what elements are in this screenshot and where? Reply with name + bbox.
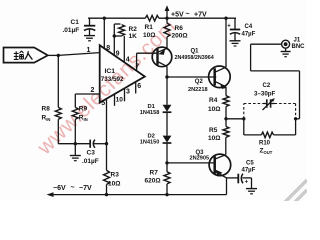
node: Q1 collector / output: [165, 75, 168, 78]
svg-text:2N4958/2N3964: 2N4958/2N3964: [175, 55, 214, 61]
diode D1 1N4158: [140, 77, 172, 116]
svg-text:C4: C4: [245, 24, 253, 30]
pin 2: [91, 87, 95, 94]
wire: R7 to rail: [166, 184, 168, 195]
svg-text:J1: J1: [294, 38, 301, 44]
resistor R3: [104, 170, 121, 187]
wire: Q2 collector to rail: [225, 18, 227, 67]
resistor R10: [244, 119, 296, 155]
svg-text:~: ~: [186, 11, 190, 18]
svg-text:C3: C3: [87, 150, 96, 157]
svg-text:10Ω: 10Ω: [143, 32, 155, 39]
pin 1: [87, 47, 91, 54]
svg-text:R6: R6: [175, 25, 184, 32]
svg-text:6: 6: [137, 83, 141, 90]
svg-text:R8: R8: [42, 106, 51, 113]
wire: output node to C2: [226, 118, 244, 120]
node: C2 right: [294, 117, 297, 120]
node: rail/R6 junction: [165, 17, 168, 20]
svg-text:−7V: −7V: [79, 185, 92, 192]
svg-text:C5: C5: [246, 161, 254, 167]
input connector (输入): [4, 48, 48, 63]
pin 5: [101, 100, 105, 107]
svg-text:IC1: IC1: [105, 68, 116, 75]
svg-text:+: +: [227, 24, 231, 30]
transistor Q3 2N2905 (PNP): [190, 150, 231, 178]
resistor R7: [145, 170, 171, 185]
wire: R9 bottom: [74, 119, 76, 143]
svg-text:.01µF: .01µF: [63, 27, 80, 34]
svg-text:C2: C2: [263, 83, 271, 89]
op-amp IC1 733/592: [100, 45, 145, 102]
svg-text:1: 1: [87, 47, 91, 54]
svg-text:620Ω: 620Ω: [145, 178, 161, 185]
supply arrow -V: [47, 192, 54, 197]
svg-text:7: 7: [135, 64, 139, 71]
ground (C4): [230, 41, 241, 46]
wire: output to J1: [251, 44, 300, 119]
supply arrow +V: [165, 5, 170, 18]
pin 3: [126, 89, 130, 96]
svg-text:~: ~: [71, 185, 75, 192]
svg-text:47µF: 47µF: [242, 168, 256, 174]
wire: pin 2 lead: [75, 94, 99, 107]
pin 7: [135, 64, 139, 71]
supply label -6V ~ -7V: [53, 185, 92, 193]
svg-text:200Ω: 200Ω: [172, 33, 188, 40]
resistor R9: [72, 106, 87, 123]
svg-text:10Ω: 10Ω: [208, 135, 220, 142]
node: rail/Q2 collector junction: [224, 17, 227, 20]
svg-text:+5V: +5V: [171, 12, 184, 19]
pin 10: [116, 97, 124, 104]
svg-text:Q2: Q2: [195, 79, 204, 85]
svg-text:1N4150: 1N4150: [140, 139, 160, 145]
wire: R8/R9 common bar: [58, 143, 106, 145]
wire: pin 9 lead: [114, 24, 120, 55]
wire: pin 8 lead: [103, 18, 105, 49]
node: R2 bottom / pin 9: [113, 34, 116, 37]
wire: to Q3 base: [167, 162, 215, 164]
svg-text:R9: R9: [79, 106, 88, 113]
pin 9: [116, 51, 120, 58]
diode D2 1N4150: [140, 112, 172, 145]
transistor Q2 2N2218 (NPN): [188, 66, 230, 93]
wire: R6 to Q1 emitter: [166, 18, 168, 48]
wire: pin 5 column: [106, 98, 108, 170]
wire: pin 6 stub: [135, 82, 137, 94]
svg-text:2N2218: 2N2218: [188, 87, 208, 93]
node: R4/R5 output junction: [224, 117, 227, 120]
resistor R6: [164, 23, 188, 39]
node: R7/rail: [165, 193, 168, 196]
svg-text:R7: R7: [150, 170, 159, 177]
svg-text:Q1: Q1: [191, 49, 200, 55]
wire: pin 4 lead: [123, 36, 125, 62]
wire: D2 to Q3 base node: [166, 143, 168, 172]
wire: Q2 emitter: [225, 87, 227, 96]
wire: pin 3 stub: [124, 88, 126, 101]
wire: pin 7 to Q1 base: [137, 53, 158, 71]
svg-text:10: 10: [116, 97, 124, 104]
svg-text:−6V: −6V: [53, 185, 66, 192]
ground (C5): [246, 178, 257, 194]
svg-text:R10: R10: [259, 141, 271, 147]
svg-text:47µF: 47µF: [242, 32, 256, 38]
resistor R4: [208, 96, 229, 113]
svg-text:R1: R1: [145, 24, 154, 31]
wire: input to pin 1: [48, 53, 100, 56]
wire: negative supply rail: [52, 194, 227, 196]
resistor R1: [143, 15, 159, 39]
capacitor C2 3-30pF (trimmer, dashed): [244, 83, 296, 119]
node: R3/rail: [105, 193, 108, 196]
pin 4: [126, 57, 130, 64]
svg-text:4: 4: [126, 57, 130, 64]
svg-text:1N4158: 1N4158: [140, 110, 160, 116]
svg-text:5: 5: [101, 100, 105, 107]
svg-text:R5: R5: [209, 127, 218, 134]
svg-text:+: +: [245, 180, 249, 186]
wire: positive supply rail: [88, 17, 236, 19]
resistor R8: [42, 106, 62, 123]
svg-text:10Ω: 10Ω: [208, 106, 220, 113]
svg-text:3–30pF: 3–30pF: [254, 90, 276, 97]
svg-text:R4: R4: [209, 97, 218, 104]
wire: Q1 collector: [166, 66, 168, 77]
wire: pin 10 stub: [114, 94, 116, 106]
capacitor C4: [227, 18, 255, 40]
svg-text:2N2905: 2N2905: [190, 155, 210, 161]
svg-text:733/592: 733/592: [101, 76, 124, 83]
ground (J1): [281, 48, 291, 57]
svg-text:+7V: +7V: [194, 12, 207, 19]
svg-text:2: 2: [91, 87, 95, 94]
svg-text:R3: R3: [111, 172, 120, 179]
wire: R8 bottom: [57, 119, 59, 143]
transistor Q1 2N4958/2N3964 (PNP): [152, 47, 214, 67]
connector J1 BNC: [282, 38, 306, 51]
node: rail/pin8 junction: [103, 17, 106, 20]
wire: R3 to rail: [106, 185, 108, 195]
wire: to Q2 base: [167, 76, 216, 78]
resistor R2: [114, 25, 137, 40]
node: C3 / pin5 column: [105, 142, 108, 145]
node: input junction: [57, 54, 60, 57]
capacitor C3: [82, 140, 99, 165]
node: Q3 base junction: [165, 161, 168, 164]
svg-text:10Ω: 10Ω: [108, 181, 120, 188]
svg-text:BNC: BNC: [292, 44, 306, 50]
pin 6: [137, 83, 141, 90]
svg-text:3: 3: [126, 89, 130, 96]
wire: R4 to node: [225, 107, 227, 127]
wire: R8 column: [57, 55, 59, 107]
resistor R5: [208, 127, 229, 143]
node: C2 left: [242, 117, 245, 120]
ground (C1): [84, 36, 95, 41]
capacitor C1: [63, 18, 96, 35]
capacitor C5: [238, 161, 255, 186]
supply label +5V ~ +7V: [171, 11, 207, 19]
svg-text:.01µF: .01µF: [82, 158, 99, 165]
pin 8: [106, 45, 110, 52]
svg-text:C1: C1: [71, 19, 80, 26]
wire: R5 to Q3 collector: [225, 137, 227, 154]
wire: Q3 emitter node: [227, 178, 239, 195]
svg-text:1K: 1K: [129, 33, 138, 40]
node: R9/ground junction: [74, 142, 77, 145]
ground (input bias): [70, 144, 81, 161]
